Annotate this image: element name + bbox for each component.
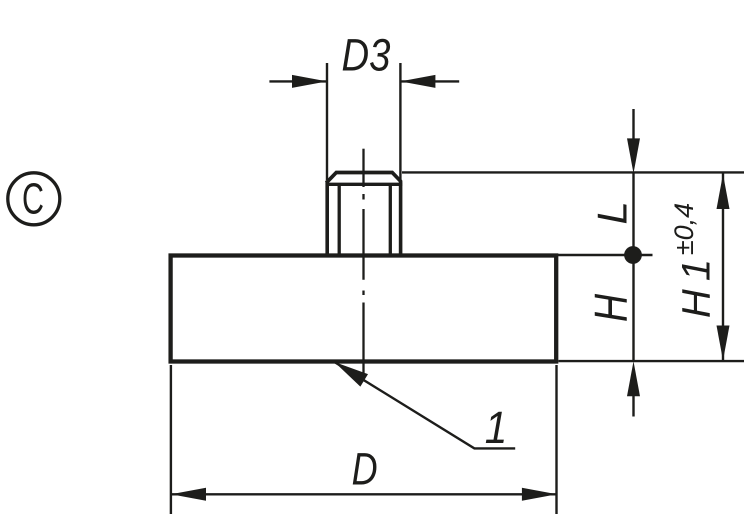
svg-text:1: 1 xyxy=(485,403,508,453)
centerline dash segment 3 xyxy=(362,303,364,378)
stud outer left edge xyxy=(325,181,329,256)
centerline dash segment 2 xyxy=(362,209,364,280)
D3 extension line left xyxy=(326,63,328,180)
stud top edge with 45deg chamfer bevels xyxy=(326,173,401,183)
view label circle C xyxy=(8,173,60,225)
svg-text:C: C xyxy=(22,174,44,223)
D3 right arrow xyxy=(400,75,435,88)
D extension line right xyxy=(555,365,557,514)
leader line to item 1 xyxy=(334,362,515,448)
stud top extension line to right xyxy=(402,171,744,173)
plate bottom extension line to right xyxy=(558,360,744,362)
plate top extension line to dot xyxy=(558,254,653,256)
stud chamfer shoulder line xyxy=(326,183,403,186)
L/H dimension line xyxy=(632,173,634,361)
H1 dimension line xyxy=(722,174,724,362)
centerline dot 1 xyxy=(362,194,364,200)
plate (magnet body) xyxy=(171,256,557,362)
L/H dimension line upper tail xyxy=(632,109,634,139)
D3 dimension line right tail xyxy=(400,80,459,82)
H1 top arrow pointing up xyxy=(717,174,730,209)
D3 extension line right xyxy=(399,63,401,180)
L/H bottom arrow pointing up xyxy=(627,361,640,396)
H1 bottom arrow pointing down xyxy=(717,326,730,361)
L/H dimension line lower tail xyxy=(632,396,634,417)
stud thread inner right line xyxy=(389,185,392,255)
D right arrow pointing right xyxy=(522,488,557,501)
L/H top arrow pointing down xyxy=(627,138,640,173)
D left arrow pointing left xyxy=(171,488,206,501)
D3 dimension line left tail xyxy=(269,80,327,82)
stud thread inner left line xyxy=(338,185,341,255)
svg-text:D3: D3 xyxy=(342,30,391,81)
svg-text:L: L xyxy=(589,201,636,224)
centerline dot 2 xyxy=(362,291,364,296)
svg-text:H: H xyxy=(586,294,638,322)
centerline dash segment 1 xyxy=(362,149,364,187)
svg-text:±0,4: ±0,4 xyxy=(669,203,699,255)
stud outer right edge xyxy=(399,181,403,256)
leader arrow xyxy=(331,356,368,387)
svg-text:D: D xyxy=(352,444,378,495)
svg-text:H1: H1 xyxy=(675,251,719,318)
D3 left arrow xyxy=(292,75,327,88)
D extension line left xyxy=(170,365,172,514)
node dot between L and H xyxy=(624,246,642,264)
D dimension line xyxy=(171,493,557,495)
